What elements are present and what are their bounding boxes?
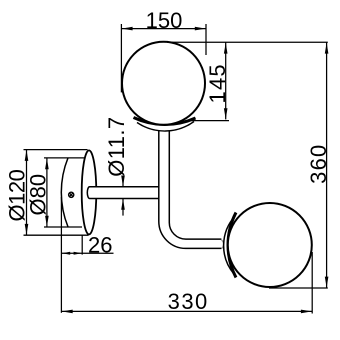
dimension 360 bottom extension line bbox=[269, 287, 328, 289]
backplate bottom edge / Ø80 bottom extension line bbox=[44, 226, 82, 228]
svg-text:360: 360 bbox=[306, 144, 331, 184]
dimension Ø11.7 upper leader with arrow bbox=[122, 176, 124, 186]
globe 2 holder cup back arc bbox=[224, 216, 236, 274]
canopy top edge / Ø120 top extension line bbox=[24, 149, 88, 151]
glass globe 1 (upper sphere) bbox=[122, 42, 205, 125]
dimension 145 arrow top bbox=[224, 43, 228, 54]
svg-text:145: 145 bbox=[205, 63, 230, 103]
screw on canopy bbox=[69, 192, 74, 197]
dimension 360 arrow bottom bbox=[325, 277, 329, 288]
dimension 150 extension line left bbox=[120, 24, 122, 92]
globe 1 holder cup hugging arc bbox=[134, 118, 196, 125]
svg-text:150: 150 bbox=[146, 8, 183, 33]
svg-text:26: 26 bbox=[88, 233, 112, 258]
dimension 150 extension line right bbox=[205, 24, 207, 55]
dimension 330 line bbox=[62, 310, 313, 312]
horizontal arm from canopy bbox=[87, 187, 162, 199]
dimension 150 line bbox=[121, 28, 206, 30]
dimension Ø80 line bbox=[46, 158, 48, 227]
canopy front face ellipse bbox=[82, 150, 97, 234]
dimension 145 bottom extension line bbox=[189, 120, 229, 122]
dimension 330 left extension line (wall line) bbox=[60, 197, 62, 313]
dimension 26 arrow right bbox=[74, 252, 82, 255]
dimension Ø120 arrow bottom bbox=[25, 224, 29, 235]
canopy back arc (wall side) bbox=[61, 158, 68, 227]
svg-text:Ø11.7: Ø11.7 bbox=[104, 116, 129, 176]
svg-text:330: 330 bbox=[168, 289, 209, 314]
dimension 330 right extension line bbox=[311, 252, 313, 314]
dimension 360 arrow top bbox=[325, 43, 329, 54]
dimension 145 arrow bottom bbox=[224, 108, 228, 119]
dimension Ø80 arrow top bbox=[45, 158, 49, 169]
dimension 26 arrow left bbox=[62, 252, 70, 255]
globe 1 holder cup bottom arc bbox=[137, 122, 194, 132]
dimension Ø80 arrow bottom bbox=[45, 216, 49, 227]
glass globe 2 (lower sphere) bbox=[228, 203, 312, 287]
dimension 26 right extension line bbox=[81, 236, 83, 255]
dimension 150 arrow right bbox=[195, 27, 206, 31]
dimension 145 line bbox=[225, 42, 227, 119]
globe 2 holder cup hugging arc bbox=[228, 213, 236, 278]
dimension Ø120 line bbox=[26, 150, 28, 235]
dimension 330 arrow left bbox=[62, 310, 73, 314]
backplate top edge / Ø80 top extension line bbox=[44, 157, 85, 159]
svg-text:Ø80: Ø80 bbox=[26, 174, 51, 216]
canopy bottom edge / Ø120 bottom extension line bbox=[24, 234, 89, 236]
top extension line for 145 and 360 bbox=[167, 41, 328, 43]
dimension 26 line with text shelf bbox=[62, 252, 114, 254]
dimension 330 arrow right bbox=[301, 310, 312, 314]
dimension 360 line bbox=[326, 42, 328, 287]
dimension Ø120 arrow top bbox=[25, 150, 29, 161]
bent tube: stem + elbow + lower arm bbox=[159, 132, 222, 249]
dimension Ø11.7 lower leader with arrow bbox=[122, 199, 124, 216]
lower arm end cap at holder bbox=[222, 240, 224, 249]
dimension 150 arrow left bbox=[122, 27, 133, 31]
